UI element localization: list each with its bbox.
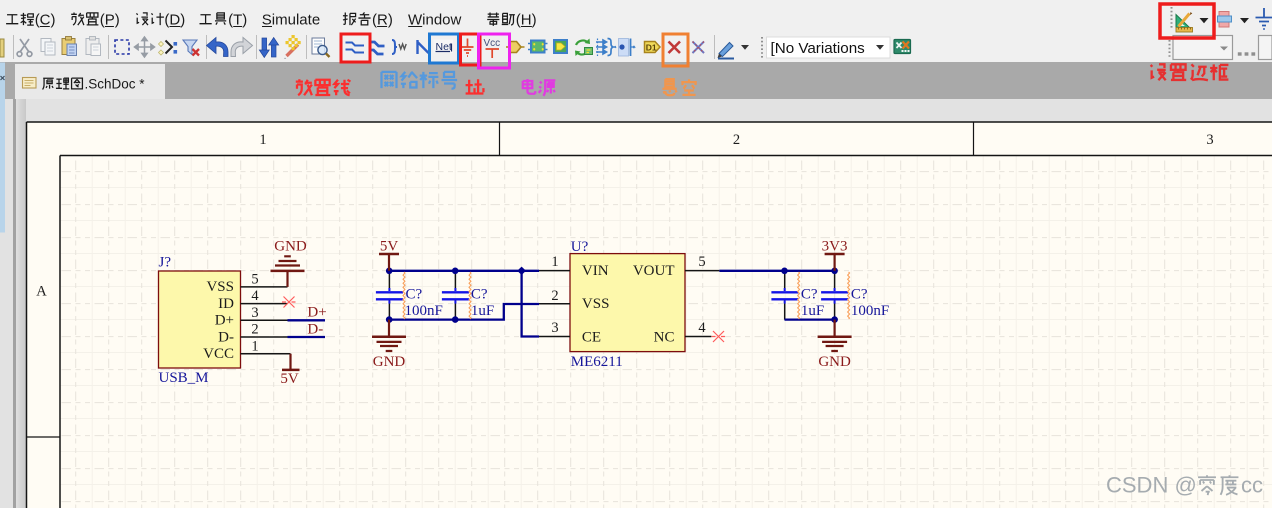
svg-text:D1: D1: [646, 43, 657, 53]
svg-text:VOUT: VOUT: [633, 263, 675, 279]
svg-text:D+: D+: [307, 305, 326, 321]
svg-text:(T): (T): [228, 12, 247, 29]
svg-text:cc: cc: [1241, 473, 1263, 498]
svg-text:(P): (P): [100, 12, 120, 29]
svg-text:CSDN @: CSDN @: [1106, 473, 1197, 498]
svg-text:NC: NC: [654, 330, 675, 346]
svg-text:VSS: VSS: [206, 279, 234, 295]
svg-text:GND: GND: [373, 354, 406, 370]
svg-text:Window: Window: [408, 12, 462, 29]
svg-text:2: 2: [551, 288, 558, 304]
svg-text:CE: CE: [582, 330, 601, 346]
svg-text:C?: C?: [801, 286, 818, 302]
svg-text:VCC: VCC: [203, 346, 234, 362]
svg-text:C?: C?: [851, 286, 868, 302]
svg-text:A: A: [36, 284, 47, 300]
svg-text:VSS: VSS: [582, 296, 610, 312]
svg-text:100nF: 100nF: [405, 303, 443, 319]
svg-text:2: 2: [251, 322, 258, 338]
svg-text:3V3: 3V3: [822, 239, 848, 255]
svg-text:5V: 5V: [280, 371, 299, 387]
svg-text:U?: U?: [571, 239, 589, 255]
svg-text:D-: D-: [218, 329, 234, 345]
svg-text:4: 4: [698, 320, 706, 336]
svg-text:D+: D+: [215, 313, 234, 329]
svg-text:J?: J?: [159, 255, 172, 271]
svg-text:C?: C?: [406, 286, 423, 302]
svg-text:VIN: VIN: [582, 263, 609, 279]
svg-text:(C): (C): [35, 12, 56, 29]
svg-text:Vcc: Vcc: [484, 38, 501, 49]
svg-text:1uF: 1uF: [801, 303, 824, 319]
svg-text:5: 5: [251, 272, 258, 288]
svg-text:C?: C?: [471, 286, 488, 302]
svg-text:1uF: 1uF: [471, 303, 494, 319]
svg-text:5V: 5V: [380, 239, 399, 255]
svg-text:Simulate: Simulate: [262, 12, 320, 29]
svg-text:4: 4: [251, 288, 259, 304]
svg-text:ME6211: ME6211: [571, 354, 623, 370]
svg-text:1: 1: [251, 338, 258, 354]
svg-text:.SchDoc *: .SchDoc *: [85, 77, 146, 92]
svg-text:1: 1: [259, 132, 266, 148]
svg-text:(R): (R): [372, 12, 393, 29]
svg-text:3: 3: [251, 305, 258, 321]
svg-text:GND: GND: [274, 239, 307, 255]
svg-text:100nF: 100nF: [851, 303, 889, 319]
svg-text:5: 5: [698, 254, 705, 270]
svg-text:2: 2: [733, 132, 740, 148]
svg-text:[No Variations: [No Variations: [771, 40, 866, 57]
svg-text:GND: GND: [818, 354, 851, 370]
svg-text:1: 1: [551, 254, 558, 270]
svg-text:USB_M: USB_M: [159, 370, 209, 386]
svg-text:3: 3: [551, 320, 558, 336]
svg-text:3: 3: [1206, 132, 1213, 148]
svg-text:(H): (H): [516, 12, 537, 29]
svg-text:ID: ID: [218, 296, 234, 312]
svg-text:(D): (D): [164, 12, 185, 29]
svg-text:D-: D-: [307, 321, 323, 337]
